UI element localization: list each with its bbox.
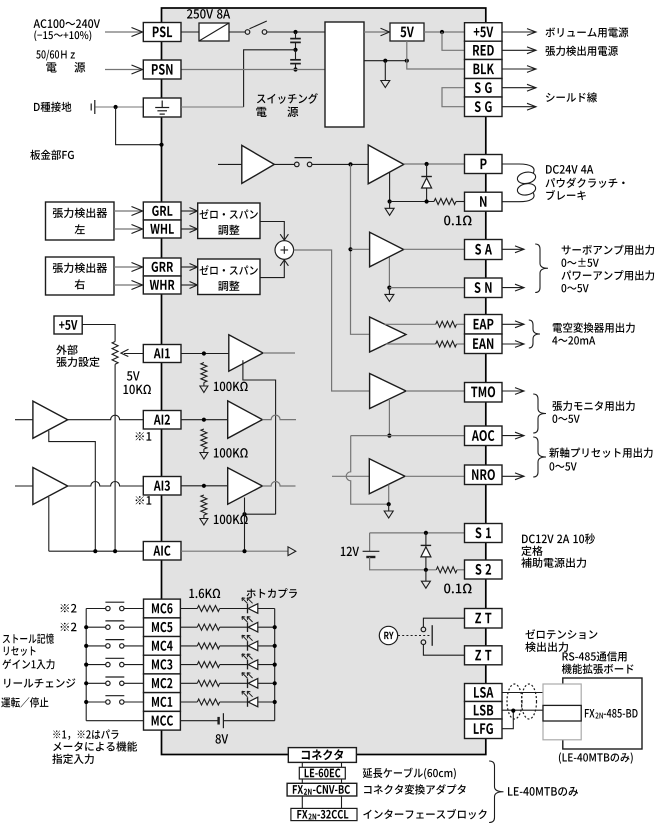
brace servo outputs xyxy=(535,244,548,293)
wire resistor to photocoupler MC3 xyxy=(220,664,248,666)
earth contact symbol xyxy=(90,104,92,111)
node P junction AI1 xyxy=(202,351,206,355)
wire photocoupler MC6 to bus xyxy=(258,608,275,610)
node H junction 0V under regulator xyxy=(405,59,409,63)
arrow EAP output xyxy=(502,323,524,325)
node bus junction MC4 xyxy=(273,644,277,648)
wire node O to S N terminal xyxy=(389,287,464,289)
arrow EAN output xyxy=(502,343,524,345)
terminal PSN xyxy=(143,60,181,79)
potentiometer VR1 10K external tension set xyxy=(112,342,118,365)
switch SW MC2 xyxy=(86,682,105,684)
wire resistor to photocoupler MC6 xyxy=(220,608,248,610)
node A junction xyxy=(293,30,297,34)
label tension detector power supply xyxy=(545,46,617,56)
wire resistor to photocoupler MC1 xyxy=(220,701,248,703)
wire MC2 line to resistor xyxy=(180,682,197,684)
wire U8 feedback to AIC bus xyxy=(49,431,96,551)
wire AIC common line left side xyxy=(49,550,144,552)
resistor R5 100K to ground xyxy=(201,429,207,449)
brace new axis preset output xyxy=(533,437,546,477)
wire U12 feedback down to AOC line xyxy=(388,399,390,436)
wire resistor to photocoupler MC4 xyxy=(220,645,248,647)
wire U12 output to TMO terminal xyxy=(406,390,465,392)
label fuse value 250V 8A xyxy=(187,9,230,19)
op-amp U5 servo output xyxy=(370,232,404,267)
ground symbol below node L xyxy=(389,202,391,209)
wire AI3 to amp U11 xyxy=(181,485,228,487)
switching power supply block U1 xyxy=(325,22,364,127)
terminal LSA xyxy=(465,684,503,702)
label run stop xyxy=(1,697,48,707)
photocoupler PC6 LED MC6 xyxy=(247,604,249,614)
wire ladder bottom to AI3 feedback node xyxy=(245,513,276,515)
wire +5V to potentiometer xyxy=(82,325,115,342)
relay RY coil xyxy=(379,626,397,644)
resistor R2 xyxy=(436,321,457,327)
inductor coil powder clutch brake xyxy=(516,171,536,185)
op-amp U12 tension monitor xyxy=(370,374,406,409)
wire LFG to LSB junction xyxy=(502,710,513,729)
wire U8 output to AI2 with hop over potentiometer wire xyxy=(68,415,145,420)
arrow S N output xyxy=(502,287,524,289)
label battery 12V xyxy=(341,547,359,556)
wire input arrow to PSL xyxy=(105,31,142,33)
op-amp U8 external input 1 xyxy=(33,401,68,438)
arrow S G lower output xyxy=(502,106,536,108)
wire capacitor midpoint to earth xyxy=(244,50,296,107)
block FX2N-485-BD expansion board xyxy=(563,678,642,749)
regulator 5V xyxy=(390,23,424,41)
ground symbol below R5 xyxy=(203,449,205,453)
wire input stub to buffer amp U2 xyxy=(218,163,242,165)
node O junction on S N line xyxy=(387,286,391,290)
wire connector to LE-60EC stubs xyxy=(301,762,303,767)
wire MCC to battery xyxy=(180,720,218,722)
op-amp U7 AI1 buffer xyxy=(229,335,263,371)
wire resistor to photocoupler MC5 xyxy=(220,626,248,628)
label stall memory reset xyxy=(3,634,54,644)
node Q junction AI2 xyxy=(202,418,206,422)
label R5 value 100K xyxy=(214,448,248,458)
terminal P xyxy=(465,155,503,174)
terminal S N xyxy=(465,278,503,298)
terminal AI2 xyxy=(143,411,181,430)
terminal WHL xyxy=(143,220,181,238)
block tension detector right xyxy=(46,257,115,295)
label D-type earth xyxy=(34,102,71,112)
block tension detector left xyxy=(46,202,115,240)
wire LSB to option connector xyxy=(502,709,543,711)
terminal RED xyxy=(465,41,503,59)
arrow AOC output xyxy=(502,435,524,437)
label LE-40MTB only lower right xyxy=(559,752,633,763)
label note 2 MC5 xyxy=(61,623,77,632)
switch SW MC3 xyxy=(86,664,105,666)
label potentiometer 5V 10K xyxy=(127,371,140,380)
wire switching supply to 5V regulator with arrow xyxy=(364,31,388,33)
label RS-485 communication board xyxy=(563,651,627,661)
terminal GRL xyxy=(143,202,181,220)
arrow S A output xyxy=(502,248,524,250)
wire amp U5 to S A terminal xyxy=(404,248,465,250)
node D junction on earth wire xyxy=(114,105,118,109)
label 50/60Hz xyxy=(36,50,75,61)
arrow +5V output xyxy=(502,31,536,33)
wire AI1 to amp U7 xyxy=(181,353,229,355)
terminal Z T lower xyxy=(465,646,503,665)
label note about parameters xyxy=(53,729,118,739)
terminal S 1 xyxy=(465,524,503,543)
wire U9 output stub with hop over ladder xyxy=(262,415,296,420)
block zero-span adjust 2 xyxy=(198,259,260,295)
label shield wire xyxy=(546,92,597,102)
wire LSA to option connector xyxy=(502,692,543,694)
label R1 value 0.1 ohm xyxy=(444,215,471,225)
node Z junction on S2 line xyxy=(424,568,428,572)
zener diode D2 on auxiliary supply xyxy=(425,533,427,570)
wire U7 feedback to ladder xyxy=(243,360,276,514)
wire switch to node A xyxy=(267,31,325,33)
label interface block xyxy=(363,809,486,819)
wire resistor to N terminal xyxy=(456,201,465,203)
node L junction on N line xyxy=(388,199,392,203)
switch SW MC1 xyxy=(86,701,105,703)
terminal MCC xyxy=(144,711,181,730)
wire input arrow to PSN xyxy=(105,69,142,71)
terminal GRR xyxy=(143,258,181,276)
op-amp U6 current output xyxy=(370,317,406,352)
wire MC3 line to resistor xyxy=(180,664,197,666)
wire N terminal to clutch coil xyxy=(502,193,534,202)
arrow detector left to WHL xyxy=(114,228,142,230)
node K junction on P wire xyxy=(425,162,429,166)
terminal S 2 xyxy=(465,560,503,579)
label LE-40MTB only xyxy=(508,787,578,796)
wire U5 feedback down xyxy=(388,258,390,288)
arrow NRO output xyxy=(502,475,524,477)
label R4 value 100K xyxy=(214,382,248,392)
wire U6 lower output to EAN xyxy=(386,343,436,345)
arrow detector right to GRR xyxy=(114,266,142,268)
wire 0V to BLK terminal xyxy=(407,61,465,69)
wire photocoupler MC3 to bus xyxy=(258,664,275,666)
node M junction diode on N line xyxy=(425,199,429,203)
resistor R4 100K to ground xyxy=(201,363,207,383)
node V junction AIC internal xyxy=(242,549,246,553)
label external tension setting xyxy=(56,345,77,355)
arrow GRR to zero-span adjust 2 xyxy=(181,266,196,268)
wire fuse to switch S1 xyxy=(229,31,245,33)
terminal S G lower xyxy=(465,97,503,117)
wire LE-60EC to FX2N-CNV-BC stubs xyxy=(301,779,303,783)
block FX2N-32CCL interface block xyxy=(291,808,357,820)
terminal S G upper xyxy=(465,79,503,98)
block LE-60EC extension cable xyxy=(299,767,345,779)
photocoupler PC4 LED MC4 xyxy=(247,641,249,651)
node switch bus junction MC1 xyxy=(84,700,88,704)
capacitor C2 xyxy=(295,50,297,60)
terminal Z T upper xyxy=(465,609,503,629)
label switching power supply xyxy=(257,93,318,104)
switch S2 output contact xyxy=(295,162,300,167)
node bus junction MC1 xyxy=(273,700,277,704)
node X junction U13 feedback xyxy=(387,502,391,506)
terminal EAP xyxy=(465,315,503,335)
label resistor value 1.6K xyxy=(189,589,220,599)
battery B1 12V xyxy=(369,533,371,551)
label DC24V 4A powder clutch brake xyxy=(546,165,593,174)
wire regulator ground pin xyxy=(406,41,408,61)
switch SW MC4 xyxy=(86,645,105,647)
summing junction U4 xyxy=(275,241,294,260)
wire amp U3 to P terminal xyxy=(404,163,465,165)
terminal N xyxy=(465,192,503,211)
wire N line xyxy=(390,201,434,203)
terminal BLK xyxy=(465,60,503,79)
label volume power supply xyxy=(546,27,629,37)
wire U6 upper output to EAP xyxy=(385,323,436,325)
wire photocoupler MC5 to bus xyxy=(258,626,275,628)
resistor R9 1.6K for MC5 xyxy=(197,624,219,630)
ground symbol below R6 xyxy=(203,515,205,519)
terminal block +5V reference xyxy=(54,316,82,334)
wire summing output to TMO amp xyxy=(294,250,370,391)
resistor R6 100K to ground xyxy=(201,495,207,515)
op-amp U13 new axis preset xyxy=(369,459,405,494)
wire input stub to U10 xyxy=(15,485,33,487)
block FX2N-CNV-BC adapter xyxy=(287,783,357,796)
label extension cable 60cm xyxy=(363,768,456,780)
switch SW MC5 xyxy=(86,626,105,628)
ground symbol at switching supply output xyxy=(384,61,386,81)
node J junction to servo branch xyxy=(348,162,352,166)
terminal AI3 xyxy=(143,477,181,496)
wire AI2 to amp U9 xyxy=(181,419,228,421)
wire node S up to U11 and down to AIC xyxy=(244,498,246,515)
resistor R13 1.6K for MC1 xyxy=(197,699,219,705)
block zero-span adjust 1 xyxy=(198,203,260,239)
wire earth to ground terminal xyxy=(96,106,144,108)
label electro-pneumatic converter output xyxy=(553,322,635,332)
terminal LFG xyxy=(465,719,503,739)
terminal +5V xyxy=(465,23,503,42)
label frame ground xyxy=(30,150,74,160)
wire U10 output to AI3 with hops xyxy=(68,482,145,487)
wire potentiometer bottom to AIC bus xyxy=(114,364,116,551)
wire AIC internal with arrow stub xyxy=(181,550,288,552)
arrow RED output xyxy=(502,49,536,51)
label auxiliary supply rating xyxy=(522,533,595,544)
arrow BLK output xyxy=(502,68,536,70)
wire NRO input stub xyxy=(332,475,369,477)
label tension monitor output xyxy=(552,401,634,411)
node W junction on AOC line xyxy=(387,434,391,438)
resistor R12 1.6K for MC2 xyxy=(197,680,219,686)
wire shield link between S G terminals xyxy=(442,88,465,107)
wire U3 feedback to N line xyxy=(389,172,391,202)
arrow GRL to zero-span adjust 1 xyxy=(181,210,196,212)
node bus junction MC2 xyxy=(273,681,277,685)
terminal EAN xyxy=(465,334,503,354)
arrow WHL to zero-span adjust 1 xyxy=(181,228,196,230)
brace electro-pneumatic outputs xyxy=(529,320,540,348)
wire photocoupler MC4 to bus xyxy=(258,645,275,647)
terminal MC5 xyxy=(144,618,181,637)
label battery 8V xyxy=(216,734,229,744)
wire MC1 line to resistor xyxy=(180,701,197,703)
capacitor C1 xyxy=(295,32,297,38)
wire AOC branch down with hop over NRO input xyxy=(346,436,389,505)
fuse F1 250V 8A xyxy=(199,23,229,41)
terminal MC2 xyxy=(144,674,181,693)
terminal MC3 xyxy=(144,655,181,674)
label R6 value 100K xyxy=(214,515,248,525)
wire S1 line xyxy=(370,532,465,534)
node U junction potentiometer on AIC xyxy=(113,549,117,553)
label gain 1 input xyxy=(2,659,54,669)
wire photocoupler MC1 to bus xyxy=(258,701,275,703)
resistor R11 1.6K for MC3 xyxy=(197,662,219,668)
photocoupler PC1 LED MC1 xyxy=(247,697,249,707)
resistor R7 0.1 ohm xyxy=(436,567,457,573)
arrow WHR to zero-span adjust 2 xyxy=(181,284,196,286)
wire PSL to fuse F1 xyxy=(181,31,199,33)
wire MC switch common bus xyxy=(85,609,87,721)
op-amp U3 P/N driver xyxy=(368,145,404,184)
wire MC5 line to resistor xyxy=(180,626,197,628)
node switch bus junction MC3 xyxy=(84,663,88,667)
wire resistor R2 to EAP terminal xyxy=(457,323,465,325)
resistor R1 0.1 ohm current sense xyxy=(434,199,456,205)
wire U13 output to NRO terminal xyxy=(405,475,465,477)
node R junction AI3 xyxy=(202,484,206,488)
terminal WHR xyxy=(143,276,181,294)
label R7 value 0.1 ohm xyxy=(444,583,471,593)
photocoupler PC3 LED MC3 xyxy=(247,660,249,670)
node E junction frame ground on box edge xyxy=(159,143,163,147)
wire zero-span 2 to summing node xyxy=(260,260,284,277)
label note 2 MC6 xyxy=(61,604,77,613)
terminal earth ground box xyxy=(143,98,181,117)
relay actuation dotted link xyxy=(398,635,430,637)
node switch bus junction MC4 xyxy=(84,644,88,648)
label photocoupler xyxy=(247,588,297,598)
ground symbol below node Z xyxy=(425,570,427,581)
photocoupler PC2 LED MC2 xyxy=(247,679,249,689)
wire frame ground branch xyxy=(116,107,162,145)
node T junction U8 feedback on AIC xyxy=(93,549,97,553)
wire Z T upper to contact xyxy=(423,618,464,627)
op-amp U10 external input 2 xyxy=(33,468,68,505)
node F junction on +5V wire xyxy=(440,30,444,34)
label note 1 for AI3 xyxy=(136,496,152,505)
label new axis preset output xyxy=(549,448,652,458)
wire U10 feedback to AIC wire xyxy=(48,497,50,551)
node N junction servo amp input xyxy=(348,247,352,251)
node bus junction MC5 xyxy=(273,625,277,629)
brace tension monitor output xyxy=(533,394,546,433)
terminal S A xyxy=(465,240,503,260)
wire switch to P driver amp xyxy=(312,163,368,165)
wire Z T lower to contact xyxy=(423,645,464,656)
node switch bus junction MC5 xyxy=(84,625,88,629)
resistor R10 1.6K for MC4 xyxy=(197,643,219,649)
terminal block connector xyxy=(288,748,356,763)
node B junction between capacitors xyxy=(293,48,297,52)
wire amp U2 to output switch xyxy=(274,163,294,165)
label FX2N-485-BD xyxy=(585,709,595,717)
wire node N to servo amp xyxy=(351,248,370,250)
relay contact bar xyxy=(431,625,433,646)
wire switching supply 0V output xyxy=(364,60,407,62)
wire ground box to capacitor branch xyxy=(181,106,244,108)
wire PSN to switching supply xyxy=(181,69,325,71)
terminal AI1 xyxy=(143,345,181,363)
arrow S G upper output xyxy=(502,87,536,89)
wire resistor R7 to S2 terminal xyxy=(457,569,465,571)
node AA junction LFG shield xyxy=(511,709,515,713)
resistor R8 1.6K for MC6 xyxy=(197,606,219,612)
wire photocoupler MC2 to bus xyxy=(258,682,275,684)
wire U7 output stub xyxy=(263,352,295,354)
node C junction on PSN line xyxy=(293,67,297,71)
wire P terminal to clutch coil xyxy=(502,164,534,174)
node G junction 0V xyxy=(383,59,387,63)
terminal TMO xyxy=(465,383,503,403)
op-amp U9 AI2 buffer xyxy=(228,401,263,438)
resistor R3 xyxy=(436,341,457,347)
zener diode D1 flywheel xyxy=(426,164,428,202)
wire U13 feedback down xyxy=(388,485,390,505)
block option board connector xyxy=(543,684,581,740)
node switch bus junction MC2 xyxy=(84,681,88,685)
shielded cable symbol dotted xyxy=(507,684,522,719)
node Y junction on S1 line xyxy=(424,531,428,535)
terminal PSL xyxy=(143,23,181,42)
ground symbol below R4 xyxy=(203,383,205,387)
op-amp U11 AI3 buffer xyxy=(228,468,263,504)
terminal AIC xyxy=(143,542,181,561)
label note 1 for AI2 xyxy=(136,432,152,441)
arrow detector left to GRL xyxy=(114,210,142,212)
label reel change xyxy=(4,678,75,687)
relay contact circles xyxy=(421,627,426,632)
wire MC6 line to resistor xyxy=(180,608,197,610)
label zero tension detection output xyxy=(525,629,597,639)
wire vertical bus node J down to S A amp and EAP amp xyxy=(350,164,352,249)
main controller unit body xyxy=(162,8,486,755)
photocoupler PC5 LED MC5 xyxy=(247,622,249,632)
wire U11 output stub with hop over ladder xyxy=(262,482,295,487)
label AC input voltage xyxy=(34,19,100,28)
potentiometer wiper arrow from AI1 xyxy=(124,353,144,355)
node bus junction MC3 xyxy=(273,663,277,667)
wire 5V regulator to +5V terminal xyxy=(424,31,465,33)
wire MC photocoupler common bus xyxy=(274,609,276,721)
terminal MC6 xyxy=(144,599,181,618)
terminal MC1 xyxy=(144,693,181,712)
label connector conversion adapter xyxy=(364,784,466,794)
op-amp U2 buffer xyxy=(242,145,274,183)
node S junction AI3 feedback xyxy=(242,512,246,516)
wire branch to RED terminal xyxy=(442,32,465,50)
wire resistor to photocoupler MC2 xyxy=(220,682,248,684)
terminal AOC xyxy=(465,426,503,446)
wire input stub to U8 xyxy=(15,419,33,421)
battery B2 8V xyxy=(217,717,219,725)
terminal NRO xyxy=(465,465,503,485)
